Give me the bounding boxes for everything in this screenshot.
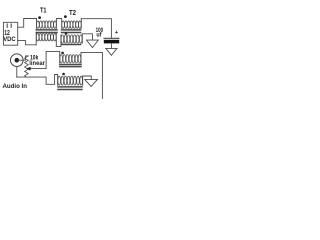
- battery terminal bars: [6, 24, 8, 27]
- wire T1 primary right to T2 primary left (bridge): [56, 19, 61, 29]
- T2 core: [62, 29, 82, 31]
- phase dot winding D: [62, 73, 65, 76]
- T2 winding D (secondary 3): [58, 75, 83, 86]
- svg-text:linear: linear: [29, 61, 45, 67]
- svg-text:Audio In: Audio In: [3, 83, 28, 90]
- svg-text:T2: T2: [69, 10, 76, 17]
- T1 core: [36, 29, 57, 31]
- wire winding C right, down off bottom edge: [81, 52, 102, 99]
- transformer T1 secondary winding: [36, 33, 56, 46]
- svg-text:VDC: VDC: [3, 36, 15, 43]
- wire battery+ to T1 primary left: [18, 19, 37, 28]
- capacitor C1 100uf top plate: [104, 37, 119, 39]
- jack sleeve wire: [16, 67, 18, 78]
- top rail: T2 primary right to capacitor: [81, 19, 111, 38]
- wire T1 secondary right to T2 winding B left: [56, 35, 61, 46]
- svg-text:T1: T1: [40, 8, 47, 15]
- phase dot T2: [64, 15, 67, 18]
- winding B core row: [62, 44, 82, 46]
- ground G3: [85, 79, 98, 86]
- T2 winding C (secondary 2): [60, 51, 81, 63]
- winding C core rows: [60, 64, 81, 66]
- phase dot winding B: [65, 32, 68, 35]
- ground G2: [106, 48, 117, 55]
- transformer T1 primary winding: [37, 19, 57, 29]
- ground bus: jack sleeve / pot bottom, step over to winding D left: [17, 75, 58, 85]
- svg-text:uf: uf: [96, 32, 102, 39]
- winding D core rows: [58, 86, 82, 88]
- wire winding C left lead down to wiper junction: [46, 51, 60, 68]
- phase dot T1: [38, 16, 41, 19]
- T2 winding B (secondary 1): [61, 34, 82, 43]
- audio jack J1: [10, 54, 23, 67]
- ground G1: [87, 40, 99, 47]
- wire battery- to T1 secondary left: [18, 41, 37, 45]
- capacitor C1 bottom plate: [104, 40, 119, 44]
- wire winding B right to ground: [82, 34, 92, 40]
- battery B1 12VDC box: [3, 22, 17, 45]
- wire winding D right to ground: [83, 76, 92, 79]
- pot wiper: [30, 68, 46, 70]
- potentiometer R1 10k resistor zigzag: [25, 56, 29, 77]
- transformer T2 primary winding: [62, 19, 82, 29]
- svg-text:+: +: [115, 30, 119, 36]
- jack tip lead to pot top: [19, 56, 28, 60]
- phase dot winding C: [61, 52, 64, 55]
